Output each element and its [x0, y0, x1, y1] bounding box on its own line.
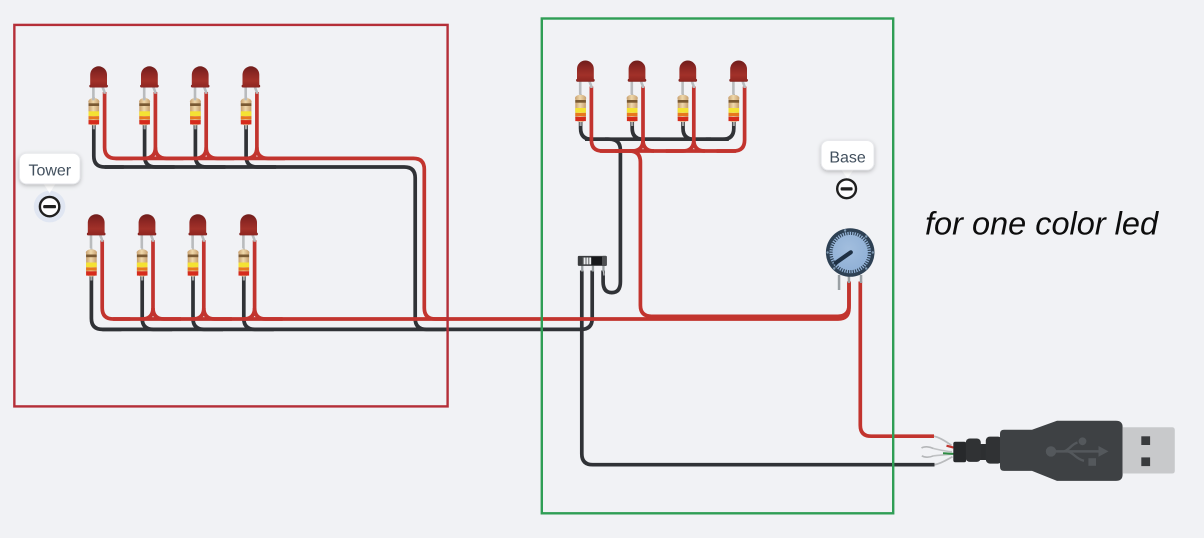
wire red main bus to potentiometer — [113, 282, 849, 320]
wire red base branch to potentiometer — [629, 151, 849, 316]
wire red potentiometer to USB — [860, 282, 934, 437]
USB plug J1 — [922, 421, 1175, 481]
wire red joint row2 — [193, 308, 204, 319]
wire red leg LED8 row2 — [255, 240, 283, 319]
wire red leg LED7 row2 — [204, 240, 232, 319]
LED D8 — [239, 214, 258, 248]
potentiometer RV1 — [826, 228, 875, 290]
wire black leg R12 base — [706, 121, 734, 139]
annotation text — [925, 206, 1159, 242]
LED D6 — [138, 214, 157, 248]
wire red joint row1 — [246, 147, 257, 158]
wire red joint base — [643, 140, 654, 151]
LED D10 — [628, 60, 647, 94]
wire black switch to base LEDs — [603, 139, 620, 292]
wire black leg R3 row1 — [195, 124, 225, 167]
wire black leg R10 base — [632, 121, 660, 139]
wire black leg R6 row2 — [142, 275, 172, 330]
wire red joint base — [694, 140, 705, 151]
wire red joint row1 — [144, 147, 155, 158]
wire black leg R11 base — [683, 121, 711, 139]
Base group box — [542, 19, 893, 514]
LED D7 — [189, 214, 208, 248]
svg-text:Tower: Tower — [28, 163, 71, 180]
wire red tower row1 bus — [116, 158, 448, 319]
svg-text:Base: Base — [829, 149, 866, 166]
Tower label — [20, 153, 81, 222]
resistor R4 — [241, 97, 252, 129]
wire black switch to USB — [582, 271, 935, 465]
wire red base anode bus — [600, 149, 736, 153]
wire red joint row2 — [244, 308, 255, 319]
wire red leg LED12 base — [717, 87, 745, 152]
wire black base cathode bus — [585, 137, 729, 141]
LED D1 — [89, 66, 108, 100]
wire red leg LED10 base — [615, 87, 643, 152]
wire black leg R5 row2 — [91, 275, 121, 330]
wire red joint row2 — [142, 308, 153, 319]
wire black leg R4 row1 — [246, 124, 276, 167]
resistor R5 — [86, 249, 97, 281]
wire black leg R8 row2 — [244, 275, 274, 330]
LED D4 — [242, 66, 261, 100]
wire black leg R7 row2 — [193, 275, 223, 330]
resistor R9 — [575, 94, 586, 126]
slide switch S1 — [578, 256, 607, 276]
resistor R12 — [728, 94, 739, 126]
LED D9 — [576, 61, 595, 95]
wire red joint row1 — [195, 147, 206, 158]
resistor R11 — [677, 94, 688, 126]
wire red leg LED1 row1 — [105, 92, 133, 158]
svg-text:for one color led: for one color led — [925, 206, 1159, 242]
wire red leg LED2 row1 — [155, 92, 183, 158]
wire red leg LED4 row1 — [257, 92, 285, 158]
wire black tower bus to switch — [102, 271, 592, 330]
wire red leg LED11 base — [666, 87, 694, 152]
wire black leg R2 row1 — [145, 124, 175, 167]
Tower group box — [14, 25, 447, 407]
resistor R10 — [627, 94, 638, 126]
LED D11 — [679, 61, 698, 95]
wire red leg LED5 row2 — [102, 240, 130, 319]
wire black leg R1 row1 — [94, 124, 124, 167]
wire black tower row1 bus — [105, 167, 445, 329]
resistor R1 — [88, 97, 99, 129]
LED D3 — [191, 66, 210, 100]
wire black leg R9 base — [581, 121, 609, 139]
wire red leg LED9 base — [591, 87, 619, 152]
LED D2 — [140, 66, 159, 100]
Base label — [821, 141, 874, 199]
resistor R6 — [137, 249, 148, 281]
resistor R3 — [190, 97, 201, 129]
resistor R8 — [238, 249, 249, 281]
LED D12 — [729, 61, 748, 95]
wire red leg LED6 row2 — [153, 240, 181, 319]
resistor R7 — [187, 249, 198, 281]
resistor R2 — [139, 97, 150, 129]
wire red leg LED3 row1 — [206, 92, 234, 158]
LED D5 — [87, 214, 106, 248]
